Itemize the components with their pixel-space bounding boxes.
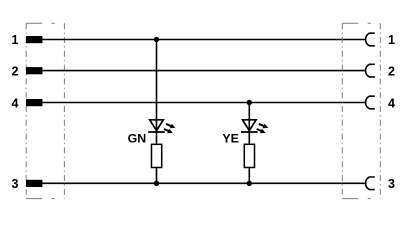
label GN	[128, 132, 147, 146]
svg-text:1: 1	[12, 33, 19, 47]
svg-text:2: 2	[388, 64, 395, 78]
junction: wire 4 / YE branch	[247, 100, 252, 105]
pin 1 label (right)	[388, 33, 395, 47]
wire: GN resistor to wire 3	[156, 168, 158, 184]
socket contact 1 (right)	[366, 33, 375, 46]
LED YE emission arrows	[257, 124, 269, 133]
LED GN (diode triangle + cathode bar)	[148, 120, 165, 132]
left connector boundary (dash-dot box)	[26, 23, 64, 198]
svg-text:3: 3	[388, 177, 395, 191]
wire: GN branch vertical	[156, 40, 158, 145]
pin 4 label (left)	[12, 96, 19, 110]
resistor (GN branch)	[152, 144, 162, 167]
wire 1	[42, 39, 365, 41]
svg-text:GN: GN	[128, 132, 147, 146]
pin 4 contact (left, solid pin)	[26, 99, 42, 106]
wire 2	[42, 70, 365, 72]
svg-text:3: 3	[12, 177, 19, 191]
svg-text:4: 4	[388, 96, 395, 110]
resistor (YE branch)	[244, 144, 254, 167]
wire 4	[42, 102, 365, 104]
pin 1 contact (left, solid pin)	[26, 36, 42, 43]
svg-text:1: 1	[388, 33, 395, 47]
svg-text:2: 2	[12, 64, 19, 78]
pin 2 contact (left, solid pin)	[26, 67, 42, 74]
wire 3	[42, 182, 365, 184]
wire: YE resistor to wire 3	[248, 168, 250, 184]
svg-text:YE: YE	[222, 132, 239, 146]
pin 3 label (left)	[12, 177, 19, 191]
pin 3 contact (left, solid pin)	[26, 180, 42, 187]
junction: wire 3 / GN branch	[154, 181, 159, 186]
label YE	[222, 132, 239, 146]
pin 2 label (right)	[388, 64, 395, 78]
right connector boundary (dash-dot box)	[342, 23, 380, 198]
LED GN emission arrows	[164, 124, 176, 133]
pin 2 label (left)	[12, 64, 19, 78]
junction: wire 3 / YE branch	[247, 181, 252, 186]
socket contact 4 (right)	[366, 96, 375, 109]
pin 1 label (left)	[12, 33, 19, 47]
LED YE (diode triangle + cathode bar)	[241, 120, 258, 132]
svg-text:4: 4	[12, 96, 19, 110]
pin 4 label (right)	[388, 96, 395, 110]
wire: YE branch vertical	[248, 103, 250, 145]
socket contact 3 (right)	[366, 177, 375, 190]
socket contact 2 (right)	[366, 64, 375, 77]
pin 3 label (right)	[388, 177, 395, 191]
junction: wire 1 / GN branch	[154, 37, 159, 42]
